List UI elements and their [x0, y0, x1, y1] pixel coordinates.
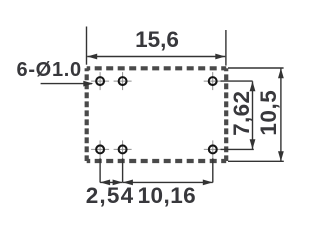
svg-text:10,16: 10,16 — [138, 183, 197, 208]
svg-text:6-Ø1.0: 6-Ø1.0 — [17, 59, 82, 81]
dimension 10,16 — [123, 181, 213, 183]
hole H2 — [119, 77, 127, 85]
svg-text:7,62: 7,62 — [229, 91, 254, 136]
svg-text:10,5: 10,5 — [256, 90, 281, 136]
extension lines — [87, 27, 284, 183]
dimension 2,54 — [100, 181, 123, 183]
leader 6-Ø1.0 — [41, 83, 92, 85]
svg-text:15,6: 15,6 — [135, 27, 179, 52]
hole H3 top-right — [209, 77, 217, 85]
dimension 15,6 — [87, 56, 225, 58]
relay body outline (dashed rectangle) — [87, 68, 227, 161]
hole H5 — [119, 145, 127, 153]
dimension 10,5 — [280, 68, 282, 161]
hole H4 bottom-left — [96, 145, 104, 153]
hole crosshairs (centerlines) — [91, 72, 222, 158]
hole H6 bottom-right — [209, 145, 217, 153]
hole H1 top-left — [96, 77, 104, 85]
dimension 7,62 — [252, 81, 254, 149]
svg-text:2,54: 2,54 — [86, 183, 135, 208]
